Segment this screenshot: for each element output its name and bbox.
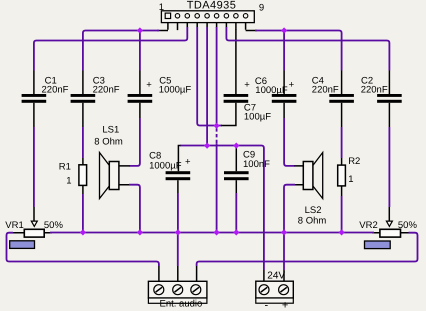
junction C9 ground rail (233, 143, 239, 149)
svg-text:+: + (282, 300, 288, 311)
svg-text:1: 1 (348, 174, 353, 185)
svg-text:1: 1 (66, 176, 71, 187)
wire pin5 to ground rail (206, 27, 208, 146)
wire pin6 vertical (216, 27, 218, 125)
svg-text:+: + (146, 80, 152, 91)
capacitor C8 1000uF (166, 146, 191, 194)
resistor R2 (338, 158, 346, 196)
wire C1 bottom to VR1 wiper (33, 127, 35, 207)
svg-text:LS2: LS2 (305, 205, 322, 216)
capacitor C2 220nF (377, 71, 402, 128)
svg-text:+: + (289, 79, 295, 90)
wire C3 bottom to R1 top (82, 127, 84, 158)
label C8 with polarity (149, 150, 191, 171)
wire pin4 to node with pin6 and C7 (197, 27, 222, 126)
svg-text:1: 1 (159, 2, 164, 13)
wire C4 bottom to R2 top (341, 127, 343, 158)
wire C5 bottom to LS1 top terminal (129, 118, 140, 166)
svg-text:50%: 50% (398, 220, 418, 231)
junction LS1 bus (137, 229, 143, 235)
svg-text:50%: 50% (44, 220, 64, 231)
capacitor C9 100nF (224, 146, 249, 193)
speaker LS1 8 Ohm (100, 153, 130, 199)
svg-text:VR1: VR1 (5, 220, 23, 231)
svg-text:220nF: 220nF (361, 85, 388, 96)
svg-text:1000µF: 1000µF (149, 161, 182, 172)
junction dashed link bus (214, 229, 220, 235)
capacitor C7 100uF with lead from pin8 (221, 29, 248, 126)
label C9 (243, 149, 270, 170)
label LS1 (94, 124, 123, 147)
capacitor C6 1000uF (272, 71, 297, 119)
svg-text:100nF: 100nF (243, 159, 270, 170)
wire R1 bottom to bus (82, 194, 84, 232)
junction R1 bus (80, 229, 86, 235)
slider mark VR2 (365, 241, 391, 249)
svg-text:220nF: 220nF (42, 85, 69, 96)
wire bus to Ent.audio middle screw (177, 232, 179, 266)
wire pin3 input-L net to C1 top (34, 27, 187, 71)
label C6 with polarity (255, 76, 295, 96)
junction node C5 top tap (137, 27, 143, 33)
speaker LS2 8 Ohm (295, 153, 323, 199)
svg-text:9: 9 (259, 3, 264, 14)
svg-text:220nF: 220nF (312, 85, 339, 96)
IC U1 TDA4935 body with pins (161, 11, 254, 30)
svg-text:Ent. audio: Ent. audio (160, 299, 203, 310)
wire R2 bottom to bus (341, 196, 343, 232)
svg-text:TDA4935: TDA4935 (187, 0, 237, 11)
wire C9 bottom to bus (235, 193, 237, 232)
wire C6 bottom to LS2 top terminal (284, 118, 295, 166)
potentiometer VR1 (13, 207, 52, 237)
wire dashed link node to bus (216, 128, 218, 232)
terminal block 24V (256, 270, 293, 303)
svg-text:R2: R2 (348, 156, 360, 167)
junction pin5 ground rail (204, 143, 210, 149)
svg-text:8 Ohm: 8 Ohm (298, 216, 327, 227)
junction C9 bus (233, 229, 239, 235)
label LS2 (298, 205, 327, 227)
wire ground rail C8 C9 to 24V minus (180, 146, 264, 271)
wire VR1 left terminal to Ent.audio left screw (7, 233, 159, 266)
resistor R1 (79, 158, 87, 194)
label C7 (244, 79, 271, 122)
wire C8 bottom to bus (177, 193, 179, 232)
svg-text:VR2: VR2 (359, 220, 377, 231)
label C1 (42, 76, 69, 96)
capacitor C3 220nF (71, 71, 96, 128)
wire LS1 bottom terminal to bus (129, 185, 140, 232)
svg-text:8 Ohm: 8 Ohm (94, 136, 123, 147)
svg-text:R1: R1 (59, 162, 71, 173)
junction R2 bus (339, 229, 345, 235)
capacitor C4 220nF (329, 71, 354, 128)
svg-text:1000µF: 1000µF (255, 85, 288, 96)
svg-text:24V: 24V (267, 271, 285, 282)
label C2 (361, 75, 388, 95)
capacitor C1 220nF (22, 71, 47, 128)
svg-text:+: + (244, 79, 250, 90)
wire pin7 input-R net to C2 column (226, 27, 389, 71)
wire C6 top tap (283, 31, 285, 71)
label R2 (348, 156, 360, 185)
svg-text:100µF: 100µF (244, 112, 271, 123)
svg-text:220nF: 220nF (93, 85, 120, 96)
wire pin9 output-R net to C4 column (246, 31, 342, 71)
label R1 (59, 162, 72, 187)
wire VR2 right terminal to Ent.audio right screw (197, 233, 418, 266)
capacitor C5 1000uF (128, 71, 153, 119)
junction C8 Ent-audio bus (175, 229, 181, 235)
wire C5 top tap (139, 31, 141, 71)
wire C2 bottom to VR2 wiper (388, 127, 390, 207)
junction C6 top tap (281, 27, 287, 33)
wire LS2 bottom terminal to bus and 24V plus (284, 185, 295, 270)
slider mark VR1 (10, 241, 35, 249)
svg-text:1000µF: 1000µF (159, 85, 192, 96)
wire pin1 output-L net to C3 column (83, 31, 168, 71)
label C4 (312, 75, 339, 95)
terminal block Ent. audio (148, 266, 207, 303)
junction pin4 pin6 C7 node (214, 123, 220, 129)
label C3 (93, 76, 120, 96)
ground bus wire (50, 232, 374, 234)
junction LS2 24V bus (281, 229, 287, 235)
label C5 with polarity (146, 75, 191, 95)
svg-text:-: - (265, 300, 269, 311)
potentiometer VR2 (372, 207, 409, 237)
svg-text:+: + (185, 157, 191, 168)
svg-text:LS1: LS1 (102, 124, 119, 135)
